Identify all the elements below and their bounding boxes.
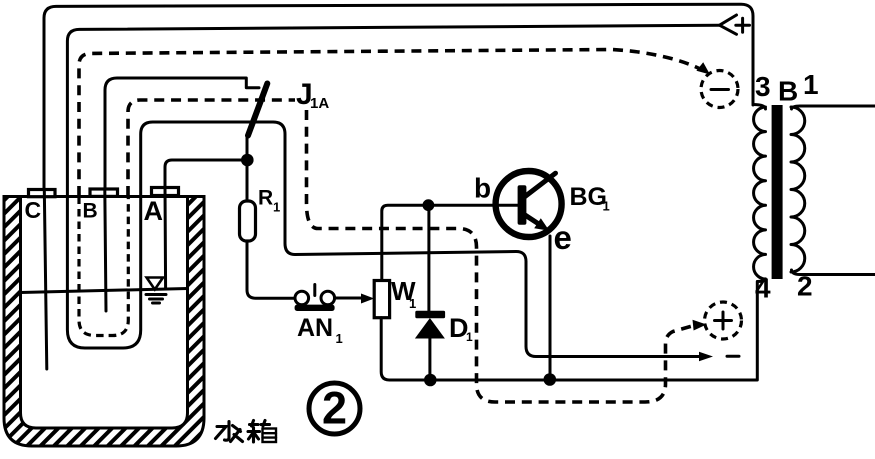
wire junction to switch blade pivot — [246, 136, 249, 160]
svg-text:1: 1 — [273, 200, 280, 215]
svg-text:A: A — [144, 196, 164, 226]
dashed flux path from tank to minus circle — [79, 50, 702, 197]
transformer secondary coil — [791, 107, 805, 272]
transformer core — [772, 105, 783, 279]
wire junction down to diode D1 — [427, 205, 430, 311]
tube electrode in tank — [67, 197, 140, 349]
svg-text:1: 1 — [803, 69, 819, 100]
svg-text:B: B — [778, 76, 798, 107]
water tank hatched wall — [4, 197, 204, 447]
svg-text:1: 1 — [336, 331, 343, 346]
pushbutton AN1 — [295, 285, 335, 312]
arrowhead at W1 — [361, 294, 374, 304]
arrowhead chevron at + — [720, 15, 737, 34]
plus sign — [715, 312, 732, 329]
wire from diode to bottom rail — [428, 339, 431, 381]
transistor base bar — [518, 185, 527, 224]
dashed tube in tank — [79, 197, 128, 336]
svg-text:2: 2 — [322, 383, 347, 434]
electrode cap C — [29, 190, 56, 197]
emitter wire down to bottom rail — [549, 236, 552, 379]
wire from AN1 to W1 wiper arrow — [335, 297, 361, 300]
dashed link from tank tube to relay contact J1A — [128, 100, 295, 196]
dashed circle minus node — [701, 71, 738, 108]
svg-text:BG: BG — [570, 183, 608, 211]
svg-text:3: 3 — [755, 71, 771, 102]
svg-text:AN: AN — [297, 314, 333, 342]
transistor emitter stroke with arrow — [525, 215, 540, 225]
switch blade J1A — [248, 84, 267, 136]
arrowhead on wire end — [699, 352, 713, 361]
water level symbol — [147, 278, 163, 290]
node junction emitter to bottom rail — [544, 373, 557, 386]
svg-text:1: 1 — [466, 330, 473, 344]
short dash after arrow — [727, 355, 739, 358]
svg-text:1: 1 — [409, 296, 416, 311]
tank rim line — [4, 195, 204, 198]
node junction below switch — [241, 154, 254, 167]
electrode cap B — [90, 189, 118, 196]
wire from electrode B up to switch fixed contact — [105, 78, 259, 196]
node junction on base wire — [423, 199, 435, 211]
secondary wire pin 2 — [792, 270, 875, 275]
svg-text:1A: 1A — [310, 95, 329, 112]
electrode C rod — [44, 190, 47, 370]
wire from W1 bottom to bottom rail and to transformer pin 4 — [381, 282, 757, 381]
secondary wire pin 1 — [792, 106, 875, 109]
transformer primary coil — [753, 105, 766, 282]
transistor collector stroke — [525, 173, 556, 196]
wire from electrode C up and across top to transformer pin 3 — [44, 4, 753, 196]
dashed path from J1A down around to plus circle — [307, 110, 695, 402]
wire from tube electrode up to arrow head with + polarity mark — [67, 25, 719, 196]
water level line — [21, 289, 188, 293]
arrowhead into minus circle — [696, 62, 710, 74]
transistor BG1 circle — [496, 171, 562, 237]
figure number circle 2 — [309, 383, 360, 434]
wire from W1 top to transistor base — [382, 205, 518, 280]
svg-text:C: C — [25, 197, 42, 223]
electrode A rod — [164, 188, 168, 290]
arrowhead into plus circle — [693, 320, 707, 331]
electrode cap A — [152, 188, 179, 196]
svg-text:4: 4 — [755, 273, 771, 304]
potentiometer W1 — [374, 281, 389, 318]
minus sign — [711, 88, 729, 91]
svg-text:e: e — [554, 219, 572, 256]
svg-text:R: R — [258, 187, 273, 210]
svg-text:1: 1 — [603, 199, 610, 214]
svg-text:B: B — [83, 200, 98, 223]
svg-text:2: 2 — [797, 271, 813, 302]
wire from electrode A to junction — [165, 160, 248, 188]
label water tank (hand drawn CJK) — [216, 421, 277, 443]
wire from R1 down to pushbutton — [247, 241, 295, 298]
wire junction down to resistor R1 — [246, 160, 249, 201]
long wire from tube right wall down through circuit to arrow near plus — [141, 122, 700, 357]
resistor R1 — [240, 201, 256, 241]
diode D1 — [415, 311, 445, 339]
plus polarity symbol — [736, 18, 750, 32]
svg-text:b: b — [474, 173, 491, 204]
electrode B rod — [105, 189, 106, 311]
dashed circle plus node — [705, 302, 742, 339]
node junction diode to bottom rail — [424, 374, 437, 387]
